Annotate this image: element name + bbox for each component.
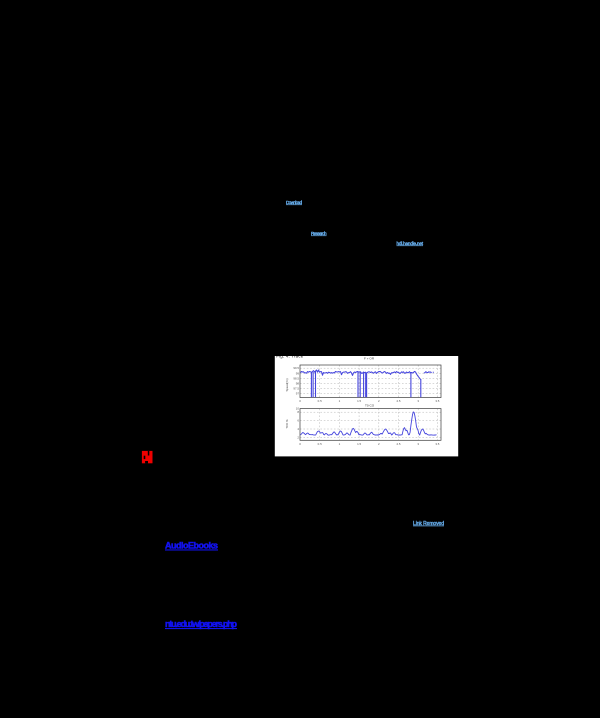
svg-text:T0 CO: T0 CO	[365, 403, 375, 407]
bottom subplot: y tick labels	[296, 407, 300, 440]
link L4 (light blue underlined)	[413, 521, 444, 527]
top subplot: y tick labels	[293, 366, 299, 396]
svg-text:Speed(r/s): Speed(r/s)	[285, 378, 289, 391]
svg-text:98.5: 98.5	[293, 376, 299, 380]
top subplot: axes box	[300, 365, 441, 398]
top subplot: gridlines	[300, 365, 441, 398]
svg-text:TCO %: TCO %	[285, 419, 289, 429]
bottom subplot: axes box	[300, 409, 441, 441]
link L2	[311, 231, 327, 236]
top subplot: dropout spikes	[311, 371, 420, 397]
red broken-glyph icon	[142, 451, 153, 464]
svg-text:1.5: 1.5	[357, 399, 361, 403]
svg-text:F + OR: F + OR	[364, 357, 375, 361]
bottom subplot: x tick labels	[299, 442, 440, 446]
link L5 (bold blue underlined)	[165, 541, 218, 551]
bottom subplot: blue signal	[301, 412, 437, 435]
svg-text:3.5: 3.5	[435, 399, 439, 403]
svg-text:ntu.edu.tw/papers.php: ntu.edu.tw/papers.php	[165, 619, 238, 629]
svg-text:Research: Research	[311, 231, 327, 236]
svg-text:99.5: 99.5	[293, 366, 299, 370]
svg-text:97.5: 97.5	[293, 387, 299, 391]
svg-text:2.5: 2.5	[396, 442, 400, 446]
svg-text:98: 98	[296, 382, 300, 386]
svg-text:97: 97	[296, 392, 300, 396]
svg-text:99: 99	[296, 371, 300, 375]
svg-text:hdl.handle.net: hdl.handle.net	[397, 241, 424, 246]
svg-text:2.5: 2.5	[396, 399, 400, 403]
link L1 (tiny light-blue underlined)	[286, 200, 302, 205]
svg-text:Fig. 4. Trace: Fig. 4. Trace	[276, 353, 304, 358]
link L3	[397, 241, 424, 246]
top subplot: blue signal baseline	[301, 370, 434, 380]
figure panel (white)	[275, 356, 458, 456]
top subplot: x tick labels	[299, 399, 440, 403]
svg-text:Download: Download	[286, 200, 302, 205]
svg-text:0.5: 0.5	[318, 442, 322, 446]
svg-text:1.5: 1.5	[357, 442, 361, 446]
svg-text:0.5: 0.5	[318, 399, 322, 403]
link L6 (bold blue underlined)	[165, 619, 238, 629]
bottom subplot: gridlines	[300, 409, 441, 441]
svg-text:3.5: 3.5	[435, 442, 439, 446]
svg-text:AudioEbooks: AudioEbooks	[165, 541, 218, 551]
